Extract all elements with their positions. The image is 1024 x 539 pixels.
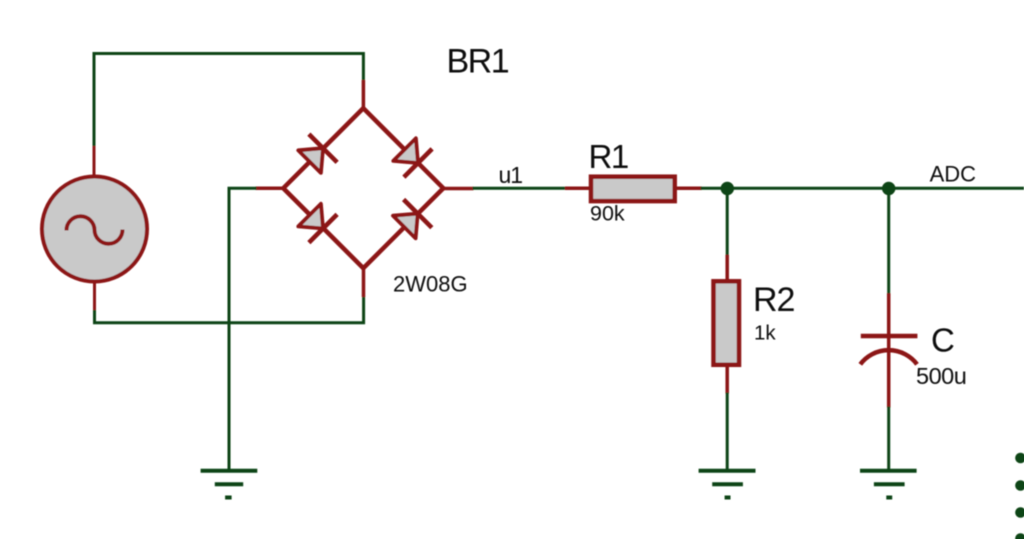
wire junction down to C <box>887 189 890 296</box>
svg-text:BR1: BR1 <box>447 43 509 81</box>
AC source top pin <box>93 146 96 176</box>
ground symbol (C) <box>860 471 917 498</box>
capacitor C bottom lead <box>887 336 891 408</box>
resistor R2 bottom lead <box>725 365 729 394</box>
diode D1 top-left (triangle + cathode bar) <box>298 134 337 173</box>
resistor R2 top lead <box>725 255 729 282</box>
AC source bottom pin <box>93 281 96 311</box>
wire from bridge left pin down to ground <box>229 188 257 470</box>
svg-text:R2: R2 <box>753 281 795 319</box>
bridge bottom pin <box>362 266 366 297</box>
svg-text:C: C <box>931 322 955 359</box>
svg-text:2W08G: 2W08G <box>393 271 468 296</box>
bridge left pin <box>256 186 284 190</box>
svg-text:u1: u1 <box>499 162 523 188</box>
resistor R1 body <box>591 177 675 201</box>
wire R2 to ground <box>726 393 729 471</box>
bridge right pin <box>443 187 473 191</box>
svg-text:1k: 1k <box>754 322 776 345</box>
wire C to ground <box>887 407 890 471</box>
capacitor C curved bottom plate <box>860 350 917 364</box>
svg-text:500u: 500u <box>916 363 966 389</box>
capacitor C top lead <box>887 293 891 336</box>
ground symbol (bridge/source net) <box>201 471 258 498</box>
svg-text:R1: R1 <box>589 138 628 175</box>
bridge top pin <box>362 80 366 110</box>
diode D3 bottom-left (triangle + cathode bar) <box>298 204 337 243</box>
diode D4 bottom-right (triangle + cathode bar) <box>393 200 432 239</box>
junction node at R2 <box>721 182 734 195</box>
svg-text:ADC: ADC <box>930 162 977 187</box>
capacitor C top plate <box>861 334 918 339</box>
ground symbol (R2) <box>699 471 756 498</box>
resistor R1 right lead <box>675 187 702 191</box>
AC source sine wave <box>66 216 122 243</box>
svg-text:90k: 90k <box>590 202 625 226</box>
wire top rail from source to bridge top <box>94 54 363 148</box>
junction node at C <box>882 182 895 195</box>
diode D2 top-right (triangle + cathode bar) <box>393 138 432 177</box>
connector pins clipped at right edge <box>1015 453 1024 539</box>
wire from R1 to right edge (ADC net) <box>701 187 1024 190</box>
wire node u1 from bridge right pin to R1 <box>473 187 568 190</box>
wire bottom rail from source to bridge bottom <box>95 296 364 323</box>
resistor R2 body <box>714 281 740 365</box>
AC source V1 circle <box>42 177 147 282</box>
resistor R1 left lead <box>565 187 592 191</box>
wire junction down to R2 <box>726 189 729 257</box>
bridge BR1 diamond outline <box>283 108 443 268</box>
